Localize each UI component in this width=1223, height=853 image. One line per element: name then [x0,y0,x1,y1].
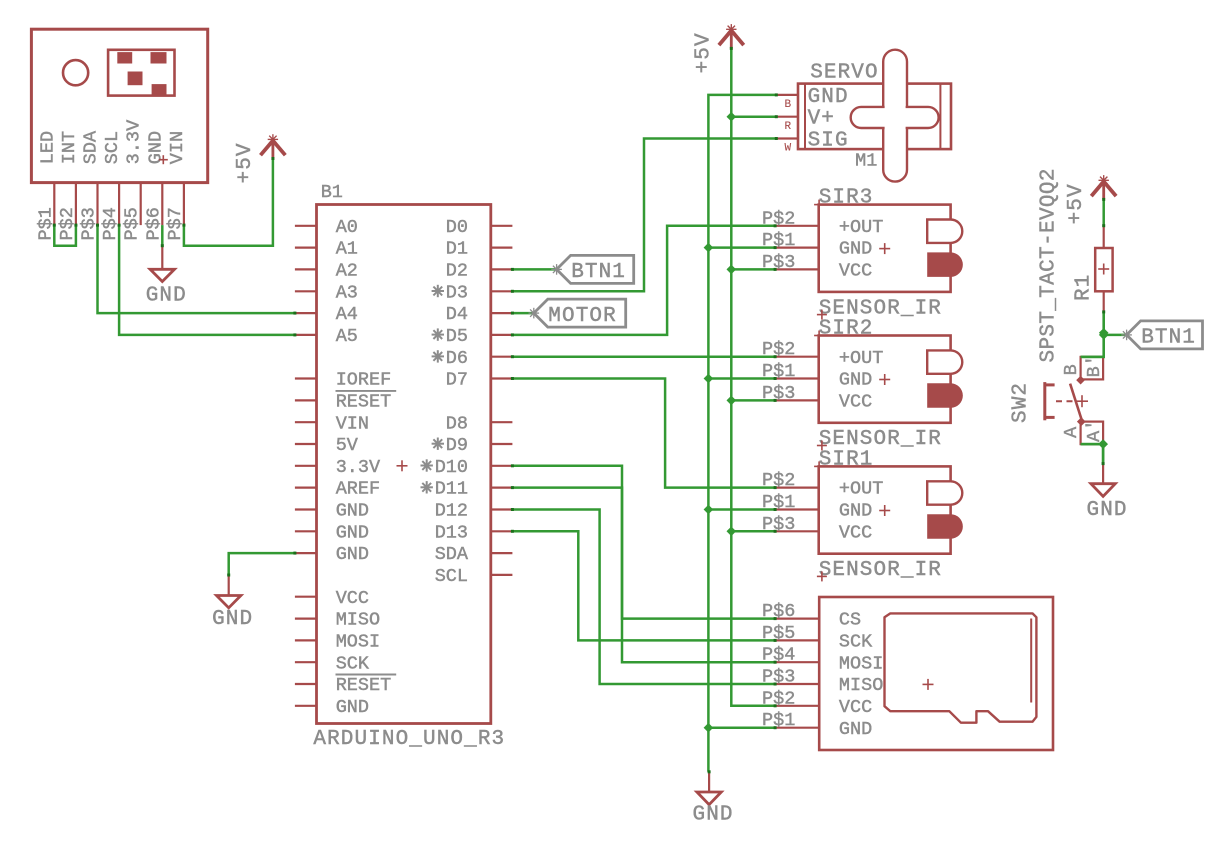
svg-text:A: A [1061,426,1082,438]
svg-text:A1: A1 [336,239,358,260]
svg-text:VIN: VIN [167,131,188,164]
svg-text:A0: A0 [336,217,358,238]
svg-text:GND: GND [336,544,369,565]
svg-text:AREF: AREF [336,479,380,500]
svg-text:VCC: VCC [839,522,872,543]
svg-text:D6: D6 [446,348,468,369]
svg-text:B': B' [1084,355,1105,377]
svg-text:P$1: P$1 [762,230,795,251]
svg-text:SCK: SCK [839,632,873,653]
svg-text:GND: GND [336,697,369,718]
svg-text:A2: A2 [336,261,358,282]
svg-text:SERVO: SERVO [810,62,879,85]
svg-text:B1: B1 [321,182,343,203]
svg-text:GND: GND [1087,499,1128,522]
svg-text:MOSI: MOSI [839,653,883,674]
svg-text:GND: GND [146,285,187,308]
svg-text:+5V: +5V [234,142,257,183]
svg-text:RESET: RESET [336,675,392,696]
svg-text:3.3V: 3.3V [124,120,145,164]
svg-text:W: W [785,143,792,155]
svg-text:VCC: VCC [336,588,369,609]
svg-text:INT: INT [59,131,80,164]
svg-text:M1: M1 [855,151,877,172]
svg-text:SCK: SCK [336,653,370,674]
svg-text:+OUT: +OUT [839,348,883,369]
svg-text:GND: GND [212,608,253,631]
svg-text:P$1: P$1 [762,492,795,513]
svg-text:B: B [785,99,792,111]
svg-text:D10: D10 [435,457,468,478]
svg-text:IOREF: IOREF [336,370,392,391]
svg-text:P$5: P$5 [762,623,795,644]
svg-text:SCL: SCL [102,131,123,164]
svg-text:P$1: P$1 [762,361,795,382]
svg-text:SCL: SCL [435,566,468,587]
svg-text:R1: R1 [1073,274,1096,301]
svg-text:VCC: VCC [839,697,872,718]
svg-text:SW2: SW2 [1009,382,1032,423]
svg-text:A4: A4 [336,304,358,325]
svg-text:P$3: P$3 [762,514,795,535]
svg-text:SDA: SDA [81,130,102,164]
svg-text:+OUT: +OUT [839,217,883,238]
svg-text:GND: GND [839,501,872,522]
svg-text:D0: D0 [446,217,468,238]
svg-text:P$4: P$4 [762,645,795,666]
svg-text:GND: GND [839,719,872,740]
svg-text:VIN: VIN [336,413,369,434]
svg-text:SENSOR_IR: SENSOR_IR [819,559,942,582]
svg-text:A': A' [1084,420,1105,442]
svg-text:D2: D2 [446,261,468,282]
svg-text:P$5: P$5 [122,207,143,240]
svg-text:+5V: +5V [693,32,716,73]
svg-text:A3: A3 [336,282,358,303]
svg-text:VCC: VCC [839,261,872,282]
svg-text:RESET: RESET [336,392,392,413]
svg-text:SDA: SDA [435,544,469,565]
svg-text:SIR1: SIR1 [819,448,874,471]
svg-text:VCC: VCC [839,392,872,413]
svg-text:R: R [785,121,792,133]
svg-text:MOTOR: MOTOR [548,305,617,328]
svg-text:SPST_TACT-EVQQ2: SPST_TACT-EVQQ2 [1038,168,1061,362]
svg-text:GND: GND [839,370,872,391]
svg-text:D11: D11 [435,479,468,500]
svg-text:MISO: MISO [839,675,883,696]
svg-text:GND: GND [693,804,734,827]
svg-text:5V: 5V [336,435,358,456]
svg-text:D5: D5 [446,326,468,347]
svg-text:P$2: P$2 [762,688,795,709]
svg-text:P$2: P$2 [762,208,795,229]
svg-text:P$3: P$3 [762,667,795,688]
svg-text:D7: D7 [446,370,468,391]
svg-text:GND: GND [839,239,872,260]
svg-text:D9: D9 [446,435,468,456]
svg-text:D8: D8 [446,413,468,434]
svg-text:D12: D12 [435,501,468,522]
svg-text:GND: GND [336,522,369,543]
svg-text:P$2: P$2 [762,339,795,360]
svg-text:MOSI: MOSI [336,632,380,653]
svg-text:D3: D3 [446,282,468,303]
svg-text:BTN1: BTN1 [1141,327,1196,350]
svg-text:A5: A5 [336,326,358,347]
svg-text:SIR2: SIR2 [819,318,874,341]
svg-text:CS: CS [839,610,861,631]
svg-text:D4: D4 [446,304,468,325]
svg-text:SIG: SIG [808,129,849,152]
svg-text:MISO: MISO [336,610,380,631]
svg-text:P$6: P$6 [762,601,795,622]
svg-text:BTN1: BTN1 [571,261,626,284]
svg-text:LED: LED [37,131,58,164]
svg-text:SIR3: SIR3 [819,187,874,210]
svg-text:P$2: P$2 [762,470,795,491]
svg-text:P$3: P$3 [762,252,795,273]
svg-text:+OUT: +OUT [839,479,883,500]
svg-text:+5V: +5V [1065,183,1088,224]
svg-text:ARDUINO_UNO_R3: ARDUINO_UNO_R3 [313,728,505,751]
svg-text:P$3: P$3 [762,383,795,404]
svg-text:D13: D13 [435,522,468,543]
svg-text:D1: D1 [446,239,468,260]
svg-text:GND: GND [808,86,849,109]
svg-text:P$1: P$1 [762,710,795,731]
svg-text:GND: GND [336,501,369,522]
svg-text:B: B [1061,364,1082,375]
svg-text:3.3V: 3.3V [336,457,380,478]
svg-text:V+: V+ [808,108,835,131]
